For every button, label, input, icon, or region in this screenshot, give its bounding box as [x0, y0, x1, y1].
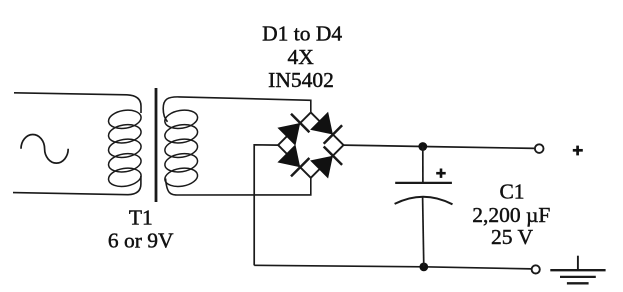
diode D4 [310, 145, 343, 178]
svg-text:6 or 9V: 6 or 9V [108, 229, 174, 253]
diode D3 [277, 144, 310, 177]
wire capacitor top lead [422, 147, 424, 184]
svg-text:IN5402: IN5402 [268, 68, 334, 92]
diode D1 [277, 112, 310, 145]
capacitor polarity plus [436, 169, 446, 178]
svg-text:4X: 4X [288, 45, 315, 69]
svg-text:D1 to D4: D1 to D4 [262, 22, 342, 46]
transformer T1 primary winding [107, 108, 142, 189]
wire capacitor bottom lead [423, 197, 424, 267]
node junction dot bottom [419, 263, 428, 272]
node junction dot top [418, 142, 427, 151]
svg-text:T1: T1 [129, 205, 153, 229]
wire primary top [14, 93, 141, 113]
wire positive top rail [344, 145, 535, 148]
output plus sign [573, 146, 583, 156]
transformer T1 secondary winding [164, 108, 199, 189]
wire secondary bottom to bridge bottom vertex [166, 178, 311, 195]
capacitor C1 negative curved plate [395, 197, 453, 205]
ac source sine symbol [21, 135, 68, 164]
ground symbol [550, 256, 605, 284]
svg-text:2,200 µF: 2,200 µF [472, 203, 550, 227]
wire negative bottom rail [254, 265, 532, 269]
svg-text:25 V: 25 V [491, 225, 533, 249]
wire primary bottom [13, 176, 141, 195]
wire bridge left vertex to negative rail [254, 145, 278, 266]
wire secondary top to bridge top vertex [163, 97, 311, 122]
svg-text:C1: C1 [499, 180, 524, 204]
terminal positive output [535, 144, 544, 153]
terminal negative output [532, 265, 540, 273]
capacitor C1 positive plate [395, 182, 452, 184]
diode D2 [310, 112, 343, 145]
transformer core [155, 88, 158, 202]
